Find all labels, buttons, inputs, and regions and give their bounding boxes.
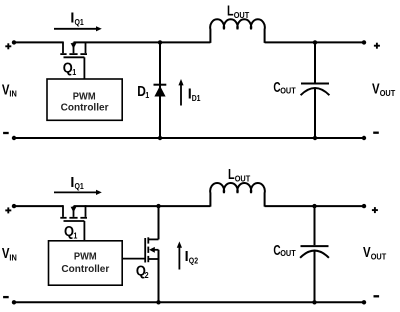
node junction dot D1 top [158,40,162,44]
label minus sign Vin- (bottom circuit) [3,296,9,298]
label V_IN (bottom circuit) [2,246,17,262]
svg-text:OUT: OUT [234,10,250,20]
svg-text:Controller: Controller [61,264,109,275]
svg-text:V: V [363,245,371,261]
wire top rail right segment (bottom circuit) [265,205,364,207]
wire D1 branch vertical (top circuit) [159,42,161,138]
node Vin+ terminal dot (top circuit) [12,40,16,44]
wire top rail right segment (inductor to Vout+) [265,41,364,43]
svg-text:IN: IN [9,253,16,263]
svg-text:PWM: PWM [74,252,97,263]
node Vout+ terminal dot (bottom circuit) [362,204,366,208]
op-amp U2: PWM Controller box (bottom circuit) [49,241,123,285]
svg-text:L: L [228,167,235,183]
node junction dot D1 bottom [158,136,162,140]
wire Q2 gate to PWM controller (bottom circuit) [122,258,145,260]
svg-text:OUT: OUT [280,248,296,258]
svg-text:V: V [372,82,380,98]
inductor L_OUT (bottom circuit) [210,183,265,207]
label plus sign Vout+ (bottom circuit) [372,207,378,213]
label V_OUT (bottom circuit) [363,245,386,261]
label V_IN (top circuit) [2,82,17,98]
svg-text:1: 1 [72,67,76,77]
wire Q1 gate to PWM controller (bottom circuit) [83,221,85,241]
svg-text:D1: D1 [192,93,201,103]
label minus sign Vin- (top circuit) [3,132,9,134]
transistor Q1 (top circuit MOSFET) [60,42,87,58]
capacitor C_OUT (top circuit) [301,84,330,96]
label I_D1 with arrow (top circuit) [178,79,200,106]
diode D1 [154,85,167,97]
svg-text:2: 2 [145,270,149,280]
transistor Q1 (bottom circuit MOSFET) [60,205,87,221]
svg-text:OUT: OUT [380,88,396,98]
label V_OUT (top circuit) [372,82,395,98]
label minus sign Vout- (top circuit) [373,132,379,134]
label I_Q2 with arrow [177,241,199,269]
node Vout+ terminal dot (top circuit) [362,40,366,44]
node Vout- terminal dot (top circuit) [362,136,366,140]
node Vin- terminal dot (bottom circuit) [12,300,16,304]
label L_OUT (top circuit) [227,4,249,20]
label L_OUT (bottom circuit) [228,167,250,183]
node junction dot C_OUT bottom [313,136,317,140]
op-amp U1: PWM Controller box (top circuit) [47,79,122,120]
wire top rail left segment (bottom circuit) [14,205,63,207]
svg-text:OUT: OUT [235,174,251,184]
inductor L_OUT (top circuit) [210,19,265,43]
label plus sign Vout+ (top circuit) [374,43,380,49]
wire C_OUT branch upper (top circuit) [314,42,316,82]
label plus sign Vin+ (top circuit) [5,43,11,49]
wire top rail left segment (Vin+ to Q1 drain) [14,41,63,43]
label Q1 (bottom circuit) [64,224,78,241]
label plus sign Vin+ (bottom circuit) [5,207,11,213]
svg-text:L: L [227,4,234,20]
svg-text:1: 1 [145,90,149,100]
node Vin+ terminal dot (bottom circuit) [12,204,16,208]
svg-text:1: 1 [73,230,77,240]
svg-text:Controller: Controller [61,103,109,114]
svg-text:IN: IN [9,89,16,99]
svg-text:PWM: PWM [73,91,96,102]
label D1 [137,84,149,100]
wire top rail middle segment (Q1 source to inductor) [74,41,211,43]
wire Q2 source to bottom rail [158,250,160,302]
label C_OUT (bottom circuit) [273,243,295,259]
svg-text:Q1: Q1 [75,17,85,27]
wire C_OUT branch lower (top circuit) [314,89,316,138]
svg-text:Q2: Q2 [189,256,199,266]
transistor Q2 (synchronous rectifier MOSFET) [145,237,158,262]
node Vout- terminal dot (bottom circuit) [362,300,366,304]
capacitor C_OUT (bottom circuit) [300,246,329,258]
label Q2 [136,263,149,280]
label I_Q1 with arrow (top circuit) [54,11,102,32]
node Vin- terminal dot (top circuit) [12,136,16,140]
node junction dot Q2 drain at top rail [156,204,160,208]
wire C_OUT branch upper (bottom circuit) [314,206,316,245]
node junction dot C_OUT bottom (bottom circuit) [312,300,316,304]
wire Q1 gate to PWM controller (top circuit) [83,57,85,79]
svg-text:OUT: OUT [371,251,387,261]
label Q1 (top circuit) [63,61,77,78]
wire bottom rail (top circuit) [14,137,364,139]
node junction dot C_OUT top (bottom circuit) [312,204,316,208]
svg-text:Q1: Q1 [75,181,85,191]
label C_OUT (top circuit) [273,80,295,96]
node junction dot Q2 source at bottom rail [156,300,160,304]
wire top rail middle segment (bottom circuit) [74,205,211,207]
label I_Q1 with arrow (bottom circuit) [54,175,102,195]
wire Q2 drain branch from top rail (bottom circuit) [158,206,160,239]
wire bottom rail (bottom circuit) [14,301,364,303]
wire C_OUT branch lower (bottom circuit) [314,251,316,302]
svg-text:OUT: OUT [280,85,296,95]
label minus sign Vout- (bottom circuit) [374,295,380,297]
node junction dot C_OUT top [313,40,317,44]
